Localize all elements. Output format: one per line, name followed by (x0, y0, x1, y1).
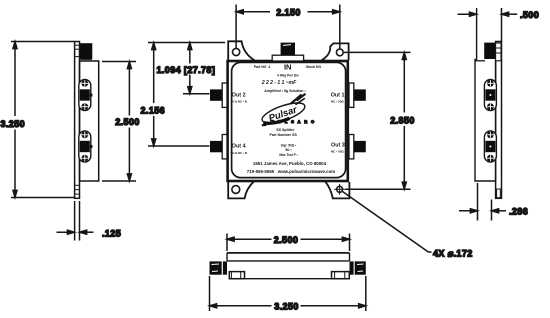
right view SMA jack B (484, 131, 496, 162)
tab hole bottom-right with crosshair (334, 184, 345, 195)
dim column top ext line (148, 42, 225, 44)
front left connector Out4 (body) (210, 141, 222, 152)
jack B bottom screw (81, 155, 88, 162)
svg-text:IN: IN (284, 63, 292, 72)
front left connector Out2 (body) (210, 89, 222, 100)
right view flange plate (496, 8, 502, 198)
front view body (228, 61, 348, 181)
svg-text:.500: .500 (520, 10, 539, 20)
dim .125 ext lines (75, 201, 80, 241)
dim 2.500 bottom ext lines (227, 234, 350, 252)
dim 3.250 bottom line and arrows (210, 304, 366, 308)
front left connector Out4 (bracket) (222, 135, 227, 159)
left view top connector (80, 43, 93, 59)
dim 2.156 line and arrows (152, 43, 156, 147)
dim .500 ext and arrows (458, 12, 518, 16)
svg-text:NC • 50Ω: NC • 50Ω (331, 99, 344, 103)
svg-text:5Ω •: 5Ω • (285, 148, 292, 152)
tab hole top-right (336, 49, 343, 56)
left view flange plate (75, 42, 80, 199)
tab hole bottom-left (232, 186, 240, 194)
svg-text:1551 James Ave, Pueblo, CO 800: 1551 James Ave, Pueblo, CO 80004 (253, 161, 327, 166)
dim 2.500 bottom line and arrows (227, 237, 350, 241)
left view flange bottom ticks (75, 185, 80, 194)
bottom view left foot (229, 272, 244, 279)
dim 3.250 left ext lines (11, 42, 74, 198)
svg-text:Max Test P •: Max Test P • (279, 153, 298, 157)
svg-text:.286: .286 (509, 207, 528, 217)
tab hole top-left (233, 48, 240, 55)
front label plate (232, 62, 346, 177)
svg-text:4 Way Pwr Div: 4 Way Pwr Div (277, 74, 299, 78)
dim 2.500 left ext lines (102, 62, 136, 182)
svg-text:Amplified • 5g Solution •: Amplified • 5g Solution • (264, 89, 306, 93)
svg-text:3.250: 3.250 (274, 302, 299, 312)
label text block (254, 63, 322, 94)
dim 2.500 left line and arrows (127, 62, 131, 182)
front right connector Out1 (bracket) (349, 83, 354, 107)
front view bottom-left mounting tab (228, 182, 253, 199)
right view top connector (484, 43, 501, 61)
svg-text:Stock NO: Stock NO (306, 65, 322, 69)
right view body (475, 8, 496, 181)
svg-text:Out 4: Out 4 (232, 144, 246, 150)
dim 2.850 line and arrows (402, 52, 406, 189)
IN connector body (281, 43, 295, 56)
svg-text:1.094 [27.78]: 1.094 [27.78] (157, 65, 216, 75)
right view SMA jack A (484, 80, 496, 111)
svg-text:Part NO 4: Part NO 4 (254, 65, 271, 69)
front view top-left mounting tab (228, 41, 254, 60)
svg-text:2.500: 2.500 (274, 235, 299, 245)
dim 3.250 bottom ext lines (210, 276, 366, 311)
dim 2.150 line and arrows (236, 10, 340, 14)
front right connector Out1 (body) (354, 89, 366, 100)
dim 3.250 left line and arrows (13, 42, 17, 198)
svg-text:2 2 2 - 1 1 ~mF: 2 2 2 - 1 1 ~mF (261, 80, 297, 86)
svg-text:4X ⌀.172: 4X ⌀.172 (433, 249, 473, 259)
IN connector (top center): base (272, 55, 303, 61)
svg-text:Out 2: Out 2 (232, 93, 246, 99)
dim 1.094 line and arrows (188, 43, 192, 94)
jack A body (80, 89, 93, 100)
svg-text:2.156: 2.156 (141, 106, 166, 116)
svg-text:50 Ω NC • N: 50 Ω NC • N (231, 151, 248, 155)
front view bottom-right mounting tab (325, 182, 349, 199)
svg-text:Out 1: Out 1 (331, 93, 345, 99)
svg-text:SS Splitter: SS Splitter (276, 128, 295, 132)
bottom view body outline (227, 253, 350, 261)
svg-text:3.250: 3.250 (1, 119, 26, 129)
bottom view right foot (332, 272, 350, 279)
right view foot slot (497, 189, 501, 198)
logo (257, 93, 312, 127)
jack A top screw (81, 80, 88, 87)
left view flange top ticks (75, 45, 80, 56)
dim .286 line and arrows (459, 209, 506, 213)
dim 2.156 bottom ext line (148, 145, 210, 147)
svg-text:2.850: 2.850 (390, 116, 415, 126)
svg-text:50 Ω NC • N: 50 Ω NC • N (231, 99, 248, 103)
svg-text:719-555-5555 www.pulsarmicro: 719-555-5555 www.pulsarmicrowave.com (247, 169, 336, 174)
bottom view right connector (350, 261, 366, 274)
bottom view flange bottom edge (229, 278, 349, 280)
front right connector Out3 (body) (354, 141, 366, 152)
front left connector Out2 (bracket) (222, 83, 227, 107)
svg-text:2.150: 2.150 (276, 7, 301, 17)
left view SMA jack B (stadium) (79, 131, 91, 162)
front view top-right mounting tab (322, 43, 349, 60)
dim .125 line and arrows (57, 230, 94, 234)
left view body (80, 61, 99, 181)
dim 1.094 bottom ext line (183, 93, 210, 95)
bottom view left connector (210, 261, 228, 274)
dim 2.150 ext lines (236, 5, 340, 49)
leader 4X dia .172 (343, 192, 432, 253)
svg-text:.125: .125 (102, 229, 121, 239)
jack B top screw (81, 131, 88, 138)
jack B body (80, 141, 93, 152)
svg-text:Out 3: Out 3 (331, 143, 345, 149)
svg-text:2.500: 2.500 (115, 117, 140, 127)
dim 2.850 ext lines (344, 52, 411, 189)
svg-text:NC • 50Ω: NC • 50Ω (331, 149, 344, 153)
dim .286 ext lines (478, 183, 492, 221)
front right connector Out3 (bracket) (349, 135, 354, 159)
svg-text:Part Number SS: Part Number SS (270, 133, 298, 137)
svg-text:P U L S A R C: P U L S A R C (272, 120, 316, 124)
jack A bottom screw (81, 103, 88, 110)
left view SMA jack A (stadium) (79, 80, 91, 111)
svg-text:Imp: 50Ω •: Imp: 50Ω • (281, 144, 297, 148)
